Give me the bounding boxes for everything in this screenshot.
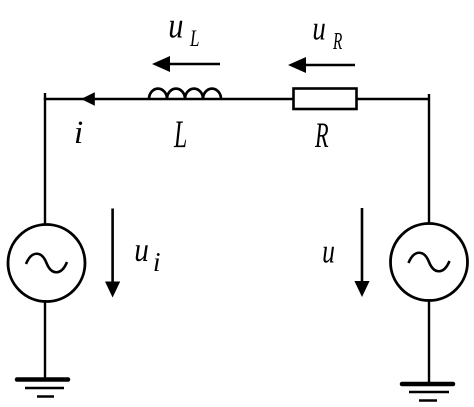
arrow i (current direction on top wire) — [81, 92, 95, 106]
label uR — [312, 11, 342, 56]
svg-text:L: L — [173, 113, 187, 156]
arrow u (voltage reference, down) — [354, 208, 369, 297]
arrow ui (voltage reference, down) — [105, 209, 120, 298]
label L (inductor value) — [173, 113, 187, 156]
svg-text:u: u — [134, 232, 149, 269]
svg-text:u: u — [312, 11, 325, 48]
label u (right voltage) — [322, 233, 335, 270]
svg-text:R: R — [314, 115, 328, 155]
inductor L — [149, 89, 221, 99]
svg-text:i: i — [74, 115, 83, 151]
arrow uL (voltage reference over inductor) — [152, 56, 220, 72]
wire right vertical lower — [428, 299, 430, 385]
resistor R — [294, 89, 357, 110]
source Ui (left AC source) — [8, 225, 85, 302]
svg-text:R: R — [332, 29, 342, 55]
svg-text:u: u — [168, 6, 183, 46]
label R (resistor value) — [314, 115, 328, 155]
label i — [74, 115, 83, 151]
label ui — [134, 232, 160, 277]
source U (right AC source) — [391, 224, 468, 301]
ground left — [17, 380, 68, 397]
wire right vertical upper — [428, 94, 430, 225]
svg-text:i: i — [153, 247, 161, 277]
arrow uR (voltage reference over resistor) — [288, 57, 355, 73]
wire left vertical upper — [44, 98, 46, 226]
label uL — [168, 6, 199, 51]
wire left vertical lower — [44, 300, 46, 381]
wire top horizontal — [44, 98, 430, 100]
node A (top-left corner junction) — [44, 93, 46, 100]
svg-text:u: u — [322, 233, 335, 270]
ground right — [402, 384, 453, 401]
svg-text:L: L — [189, 26, 199, 51]
